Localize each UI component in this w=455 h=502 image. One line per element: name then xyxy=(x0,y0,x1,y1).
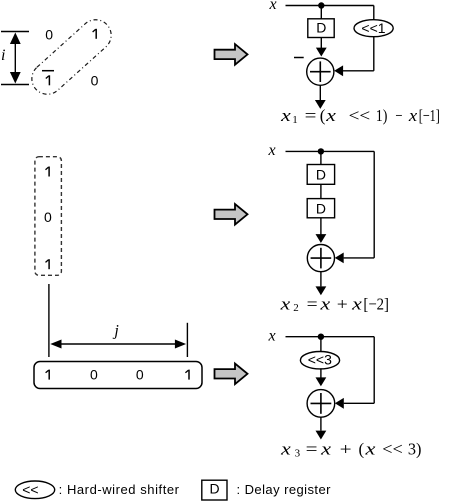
svg-text:0: 0 xyxy=(90,367,98,383)
dash-dot capsule highlight xyxy=(25,13,117,100)
shifter <<3 (circuit 3) xyxy=(300,351,339,369)
bit 1 (word col 1) xyxy=(48,370,50,380)
wire from dashed box down (left tick of j) xyxy=(48,284,50,357)
delay register D2 (circuit 2) xyxy=(307,199,334,218)
wire shifter to adder with arrowhead (circuit 3) xyxy=(316,368,327,386)
minus sign (circuit 1) xyxy=(294,57,304,59)
svg-text:x: x xyxy=(268,0,276,13)
tick line top (i dimension) xyxy=(1,31,29,33)
feedback wire (circuit 2) xyxy=(335,151,374,263)
bit 1 (dashed box top) xyxy=(48,167,50,177)
big gray arrow 1 xyxy=(215,44,248,65)
svg-text:: Delay register: : Delay register xyxy=(237,482,332,497)
dimension arrow j xyxy=(50,340,186,349)
svg-text:0: 0 xyxy=(91,72,99,88)
wire ellipse to feedback corner (circuit 1) xyxy=(373,37,375,71)
output arrow (circuit 3) xyxy=(316,417,327,439)
dimension arrow i xyxy=(10,33,21,84)
input wire (circuit 3) xyxy=(286,336,375,338)
legend shifter ellipse xyxy=(15,481,54,499)
svg-text:j: j xyxy=(112,323,119,340)
bit 1 (word col 4) xyxy=(188,370,190,380)
wire D1 to D2 (circuit 2) xyxy=(320,184,322,198)
adder (circuit 3) xyxy=(307,390,335,418)
big gray arrow 3 xyxy=(215,364,248,385)
svg-text:x: x xyxy=(267,142,275,159)
output arrow (circuit 1) xyxy=(315,85,326,109)
delay register D1 (circuit 2) xyxy=(307,165,334,185)
junction node (circuit 1) xyxy=(318,2,324,8)
svg-text:0: 0 xyxy=(45,26,53,42)
junction node (circuit 3) xyxy=(318,334,324,340)
input wire (circuit 1) xyxy=(286,5,374,7)
svg-text:x: x xyxy=(267,328,275,345)
svg-text:<<3: <<3 xyxy=(308,351,332,367)
legend delay register box xyxy=(202,480,227,500)
wire D2 to adder with arrowhead (circuit 2) xyxy=(316,218,327,243)
svg-text:<<: << xyxy=(22,481,38,497)
wire junction to D1 (circuit 2) xyxy=(320,151,322,164)
feedback wire (circuit 3) xyxy=(335,337,374,409)
svg-text:D: D xyxy=(316,200,326,216)
wire D to adder with arrowhead (circuit 1) xyxy=(316,37,327,57)
big gray arrow 2 xyxy=(215,204,248,225)
wire junction to D (circuit 1) xyxy=(320,6,322,20)
adder (circuit 1) xyxy=(307,58,334,85)
wire input corner to shifter (circuit 1) xyxy=(373,6,375,20)
wire junction to shifter (circuit 3) xyxy=(320,337,322,352)
adder (circuit 2) xyxy=(307,245,334,272)
delay register D (circuit 1) xyxy=(308,19,334,38)
tick line bottom (i dimension) xyxy=(1,84,29,86)
feedback wire into adder with arrowhead (circuit 1) xyxy=(334,65,374,76)
dashed box (vertical bit group) xyxy=(35,157,62,276)
output arrow (circuit 2) xyxy=(316,272,327,296)
bit -1 (row 2, col 1, overlined) xyxy=(42,71,54,86)
bit 1 (dashed box bottom) xyxy=(48,259,50,269)
tick right (j dimension) xyxy=(186,323,188,357)
svg-text:: Hard-wired shifter: : Hard-wired shifter xyxy=(59,482,180,497)
svg-text:0: 0 xyxy=(44,209,52,225)
bit word box (1 0 0 1) xyxy=(34,362,202,389)
svg-text:D: D xyxy=(316,167,326,183)
bit 1 (row 1, col 2) xyxy=(95,29,97,39)
junction node (circuit 2) xyxy=(318,148,324,154)
input wire (circuit 2) xyxy=(286,150,375,152)
svg-text:0: 0 xyxy=(136,367,144,383)
svg-text:x1=(x<<1)−x[−1]: x1=(x<<1)−x[−1] xyxy=(280,106,440,126)
svg-text:D: D xyxy=(316,20,326,36)
svg-text:D: D xyxy=(209,481,219,497)
svg-text:i: i xyxy=(1,47,5,64)
svg-text:<<1: <<1 xyxy=(361,20,385,36)
shifter <<1 (circuit 1) xyxy=(354,20,393,37)
